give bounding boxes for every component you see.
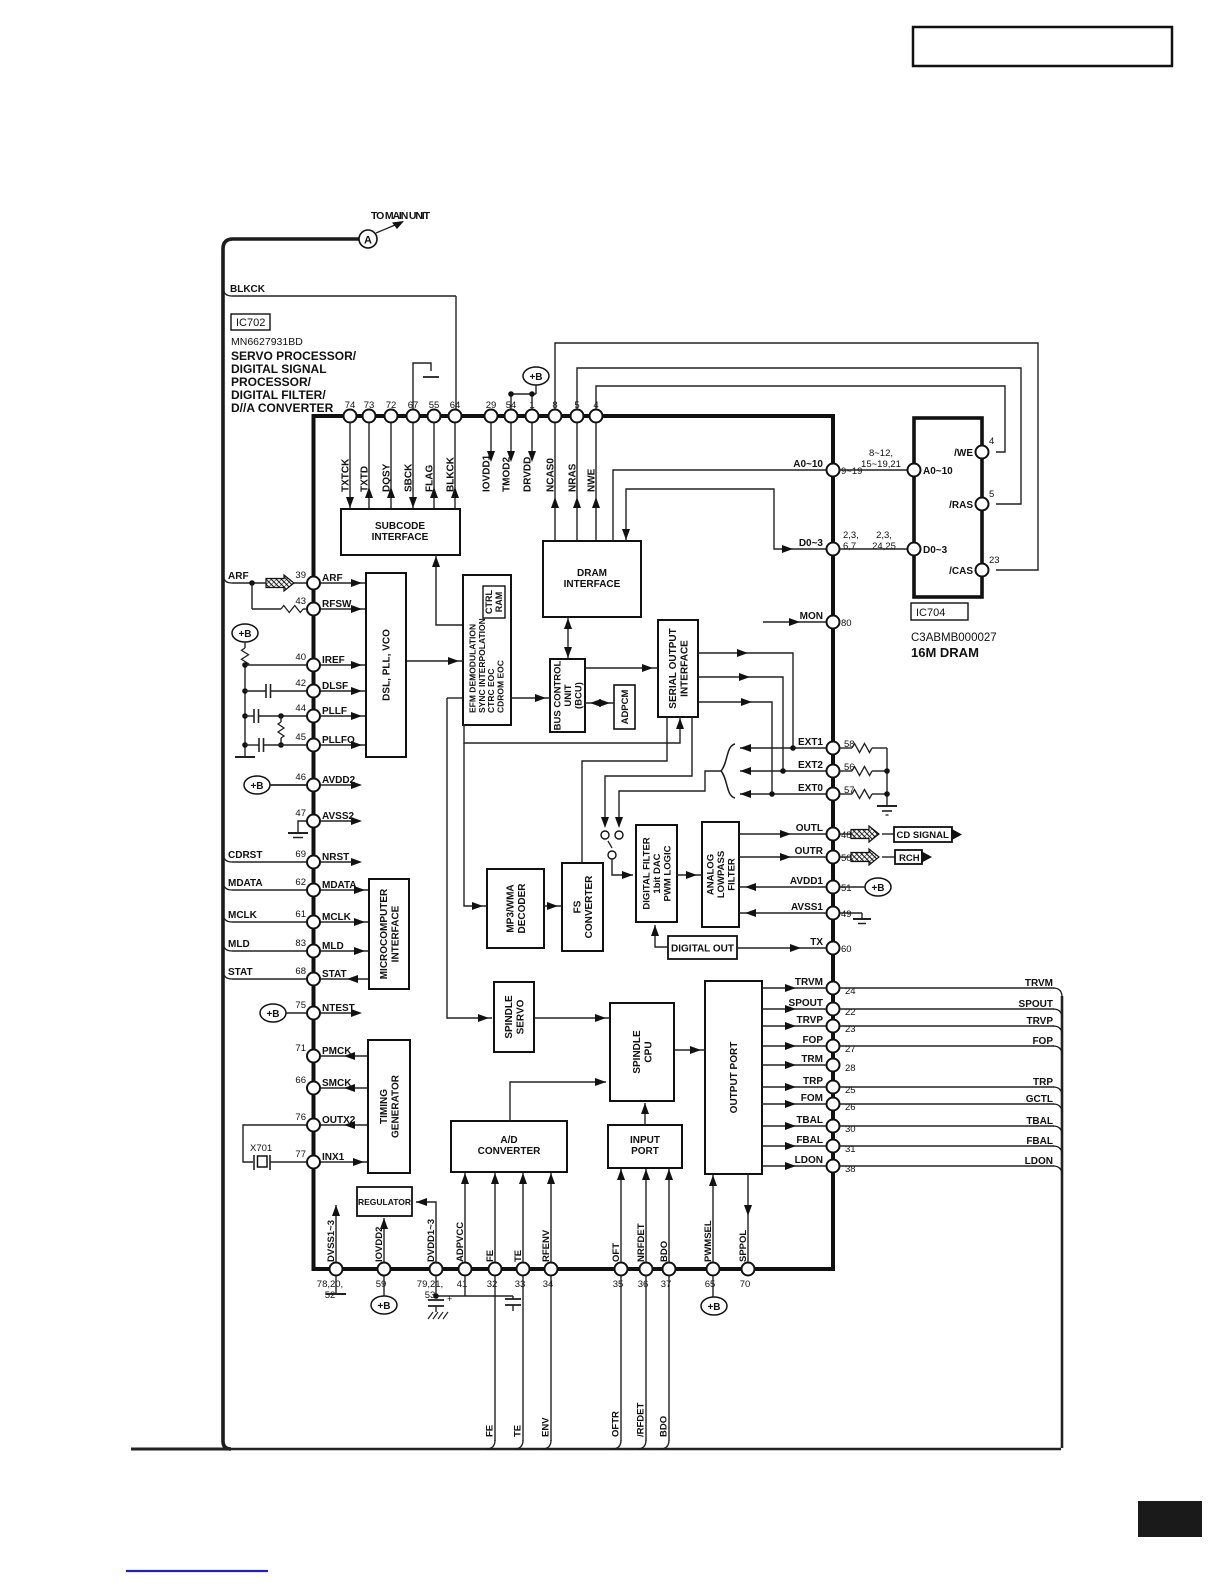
svg-text:TRP: TRP <box>1033 1077 1053 1088</box>
svg-text:75: 75 <box>295 1000 306 1011</box>
svg-text:CD SIGNAL: CD SIGNAL <box>897 830 949 841</box>
svg-text:TRM: TRM <box>801 1054 823 1065</box>
svg-text:OUTL: OUTL <box>796 823 823 834</box>
svg-text:GENERATOR: GENERATOR <box>390 1074 401 1138</box>
svg-text:80: 80 <box>841 618 852 629</box>
svg-text:C3ABMB000027: C3ABMB000027 <box>911 632 997 644</box>
svg-text:MN6627931BD: MN6627931BD <box>231 336 303 348</box>
svg-text:35: 35 <box>613 1279 624 1290</box>
svg-text:TMOD2: TMOD2 <box>502 457 513 492</box>
svg-text:FOM: FOM <box>801 1093 823 1104</box>
svg-text:AVDD1: AVDD1 <box>790 876 824 887</box>
svg-text:83: 83 <box>295 938 306 949</box>
svg-text:UNIT: UNIT <box>563 684 574 706</box>
svg-text:65: 65 <box>705 1279 716 1290</box>
svg-text:78,20,: 78,20, <box>317 1279 343 1290</box>
svg-text:52: 52 <box>325 1290 336 1301</box>
svg-text:51: 51 <box>841 883 852 894</box>
svg-text:LDON: LDON <box>1025 1156 1053 1167</box>
svg-text:FBAL: FBAL <box>796 1135 823 1146</box>
svg-text:23: 23 <box>989 555 1000 566</box>
svg-text:66: 66 <box>295 1075 306 1086</box>
svg-text:+B: +B <box>377 1301 390 1312</box>
svg-text:CTRL: CTRL <box>484 590 494 614</box>
svg-text:TO MAIN UNIT: TO MAIN UNIT <box>371 210 431 222</box>
svg-text:TRVP: TRVP <box>797 1015 824 1026</box>
svg-text:D//A CONVERTER: D//A CONVERTER <box>231 401 334 415</box>
svg-text:+B: +B <box>266 1009 279 1020</box>
svg-text:MICROCOMPUTER: MICROCOMPUTER <box>379 888 390 979</box>
svg-text:74: 74 <box>345 400 356 411</box>
svg-text:INTERFACE: INTERFACE <box>564 579 621 590</box>
svg-text:71: 71 <box>295 1043 306 1054</box>
svg-text:FBAL: FBAL <box>1026 1136 1053 1147</box>
svg-text:48: 48 <box>841 830 852 841</box>
svg-text:43: 43 <box>295 596 306 607</box>
svg-text:24,25: 24,25 <box>872 541 896 552</box>
svg-text:IC702: IC702 <box>236 317 265 329</box>
svg-text:ANALOG: ANALOG <box>705 854 716 895</box>
svg-text:TE: TE <box>513 1425 524 1437</box>
svg-text:77: 77 <box>295 1149 306 1160</box>
svg-text:CDROM EOC: CDROM EOC <box>495 660 505 713</box>
svg-text:61: 61 <box>295 909 306 920</box>
svg-text:MP3/WMA: MP3/WMA <box>505 884 516 932</box>
svg-text:+B: +B <box>238 629 251 640</box>
svg-text:79,21,: 79,21, <box>417 1279 443 1290</box>
svg-text:73: 73 <box>364 400 375 411</box>
svg-text:BDO: BDO <box>659 1416 670 1437</box>
svg-text:16M DRAM: 16M DRAM <box>911 645 979 660</box>
svg-text:DSL, PLL, VCO: DSL, PLL, VCO <box>382 629 393 701</box>
svg-text:TX: TX <box>810 937 823 948</box>
svg-text:MDATA: MDATA <box>228 878 263 889</box>
svg-text:STAT: STAT <box>228 967 253 978</box>
svg-text:SPINDLE: SPINDLE <box>632 1030 643 1074</box>
svg-text:DECODER: DECODER <box>517 883 528 934</box>
svg-text:64: 64 <box>450 400 461 411</box>
svg-text:CDRST: CDRST <box>228 850 262 861</box>
svg-text:15~19,21: 15~19,21 <box>861 459 901 470</box>
svg-text:OUTPUT PORT: OUTPUT PORT <box>729 1042 740 1114</box>
svg-text:D0~3: D0~3 <box>799 538 824 549</box>
svg-text:ENV: ENV <box>541 1417 552 1437</box>
svg-text:A0~10: A0~10 <box>793 459 823 470</box>
svg-text:(BCU): (BCU) <box>573 682 584 709</box>
svg-text:FOP: FOP <box>802 1035 823 1046</box>
svg-text:/RAS: /RAS <box>949 500 973 511</box>
svg-text:TRVM: TRVM <box>1025 978 1053 989</box>
svg-text:RAM: RAM <box>494 592 504 613</box>
svg-text:32: 32 <box>487 1279 498 1290</box>
svg-text:28: 28 <box>845 1063 856 1074</box>
svg-text:RCH: RCH <box>899 853 920 864</box>
svg-text:59: 59 <box>376 1279 387 1290</box>
svg-text:A: A <box>364 235 372 247</box>
svg-text:MLD: MLD <box>228 939 250 950</box>
svg-text:CONVERTER: CONVERTER <box>478 1146 542 1157</box>
svg-text:TBAL: TBAL <box>796 1115 823 1126</box>
svg-text:TRP: TRP <box>803 1076 823 1087</box>
svg-text:SERVO: SERVO <box>515 999 526 1034</box>
svg-text:2,3,: 2,3, <box>843 530 859 541</box>
svg-text:SERIAL OUTPUT: SERIAL OUTPUT <box>668 628 679 708</box>
svg-text:69: 69 <box>295 849 306 860</box>
svg-text:EXT2: EXT2 <box>798 760 823 771</box>
svg-text:BUS CONTROL: BUS CONTROL <box>552 660 563 730</box>
svg-text:SPOUT: SPOUT <box>1019 999 1053 1010</box>
svg-text:+: + <box>447 1294 452 1304</box>
svg-text:29: 29 <box>486 400 497 411</box>
svg-text:TBAL: TBAL <box>1026 1116 1053 1127</box>
svg-text:6,7: 6,7 <box>843 541 856 552</box>
svg-text:FS: FS <box>572 900 583 913</box>
svg-text:+B: +B <box>871 883 884 894</box>
svg-text:44: 44 <box>295 703 306 714</box>
svg-text:72: 72 <box>386 400 397 411</box>
svg-text:37: 37 <box>661 1279 672 1290</box>
svg-text:INPUT: INPUT <box>630 1135 660 1146</box>
svg-text:TIMING: TIMING <box>379 1089 390 1124</box>
svg-text:FILTER: FILTER <box>726 858 737 891</box>
svg-text:DRAM: DRAM <box>577 568 607 579</box>
svg-text:REGULATOR: REGULATOR <box>358 1197 411 1207</box>
svg-text:TRVP: TRVP <box>1027 1016 1054 1027</box>
svg-text:36: 36 <box>638 1279 649 1290</box>
svg-text:41: 41 <box>457 1279 468 1290</box>
svg-text:33: 33 <box>515 1279 526 1290</box>
svg-text:PWM LOGIC: PWM LOGIC <box>662 845 673 901</box>
svg-text:+B: +B <box>250 781 263 792</box>
svg-text:DIGITAL FILTER: DIGITAL FILTER <box>641 837 652 909</box>
svg-text:ARF: ARF <box>228 571 249 582</box>
svg-text:OUTR: OUTR <box>795 846 824 857</box>
svg-text:60: 60 <box>841 944 852 955</box>
svg-text:/WE: /WE <box>954 448 973 459</box>
svg-text:+B: +B <box>707 1302 720 1313</box>
svg-text:55: 55 <box>429 400 440 411</box>
svg-text:68: 68 <box>295 966 306 977</box>
svg-text:/CAS: /CAS <box>949 566 973 577</box>
svg-text:5: 5 <box>989 489 994 500</box>
svg-text:A0~10: A0~10 <box>923 466 953 477</box>
svg-text:47: 47 <box>295 808 306 819</box>
svg-text:FOP: FOP <box>1032 1036 1053 1047</box>
svg-text:IC704: IC704 <box>916 607 945 619</box>
svg-text:42: 42 <box>295 678 306 689</box>
svg-text:INTERFACE: INTERFACE <box>390 905 401 962</box>
svg-text:MCLK: MCLK <box>228 910 258 921</box>
svg-text:34: 34 <box>543 1279 554 1290</box>
svg-text:SERVO PROCESSOR/: SERVO PROCESSOR/ <box>231 349 357 363</box>
svg-text:+B: +B <box>529 372 542 383</box>
svg-text:50: 50 <box>841 853 852 864</box>
svg-text:9~19: 9~19 <box>841 466 862 477</box>
svg-text:EXT0: EXT0 <box>798 783 823 794</box>
svg-text:39: 39 <box>295 570 306 581</box>
svg-text:PROCESSOR/: PROCESSOR/ <box>231 375 312 389</box>
svg-text:INTERFACE: INTERFACE <box>372 532 429 543</box>
svg-text:/RFDET: /RFDET <box>636 1403 647 1438</box>
svg-text:BLKCK: BLKCK <box>230 284 266 295</box>
svg-text:49: 49 <box>841 909 852 920</box>
svg-text:PORT: PORT <box>631 1146 659 1157</box>
svg-text:GCTL: GCTL <box>1026 1094 1053 1105</box>
svg-text:DIGITAL OUT: DIGITAL OUT <box>671 944 734 955</box>
svg-text:INTERFACE: INTERFACE <box>679 640 690 697</box>
svg-text:40: 40 <box>295 652 306 663</box>
svg-text:SPINDLE: SPINDLE <box>504 995 515 1039</box>
svg-text:45: 45 <box>295 732 306 743</box>
svg-text:1bit DAC: 1bit DAC <box>652 853 663 893</box>
svg-text:SPOUT: SPOUT <box>789 998 823 1009</box>
svg-text:MON: MON <box>800 611 823 622</box>
svg-text:LDON: LDON <box>795 1155 823 1166</box>
svg-text:DIGITAL FILTER/: DIGITAL FILTER/ <box>231 388 326 402</box>
svg-text:FE: FE <box>485 1425 496 1437</box>
svg-text:TRVM: TRVM <box>795 977 823 988</box>
svg-text:70: 70 <box>740 1279 751 1290</box>
svg-text:D0~3: D0~3 <box>923 545 948 556</box>
svg-text:8~12,: 8~12, <box>869 448 893 459</box>
svg-text:X701: X701 <box>250 1143 272 1154</box>
svg-text:EXT1: EXT1 <box>798 737 823 748</box>
svg-text:SUBCODE: SUBCODE <box>375 521 425 532</box>
svg-text:76: 76 <box>295 1112 306 1123</box>
svg-text:A/D: A/D <box>500 1135 517 1146</box>
svg-text:46: 46 <box>295 772 306 783</box>
svg-text:2,3,: 2,3, <box>876 530 892 541</box>
svg-text:CONVERTER: CONVERTER <box>584 875 595 939</box>
svg-text:AVSS1: AVSS1 <box>791 902 823 913</box>
svg-text:4: 4 <box>989 436 994 447</box>
svg-text:ADPCM: ADPCM <box>620 690 631 725</box>
svg-text:DRVDD: DRVDD <box>523 457 534 492</box>
svg-text:OFTR: OFTR <box>611 1411 622 1437</box>
svg-text:DIGITAL SIGNAL: DIGITAL SIGNAL <box>231 362 327 376</box>
svg-text:LOWPASS: LOWPASS <box>716 851 727 898</box>
svg-text:CPU: CPU <box>643 1041 654 1062</box>
svg-text:62: 62 <box>295 877 306 888</box>
